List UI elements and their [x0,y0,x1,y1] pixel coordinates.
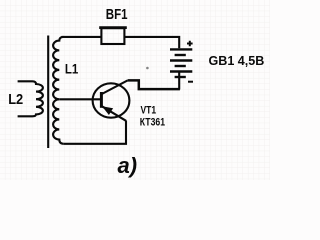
wire: emitter down to bottom rail [64,121,126,144]
battery negative plate 1 [175,54,186,56]
svg-text:а): а) [118,153,138,178]
battery GB1 positive plate 1 [170,48,192,50]
plus sign [187,41,193,47]
BF1 top plate (thick bar) [99,26,127,29]
battery positive plate 2 [170,59,192,61]
inductor L1 (tapped primary winding) [53,37,64,144]
inductor L2 (secondary winding) [18,81,43,116]
battery negative stub [178,72,180,90]
battery negative plate 2 [175,65,186,67]
scan speck [146,67,149,70]
emitter arrow (PNP points toward base) [102,106,113,115]
emitter line [102,106,126,121]
svg-text:КТ361: КТ361 [140,116,165,128]
wire: L1 top to BF1 [62,36,102,38]
transistor VT1 body circle [93,83,130,117]
svg-text:L2: L2 [8,92,23,108]
transformer core [47,36,49,149]
wire: battery minus to collector [128,80,180,89]
svg-text:L1: L1 [65,61,79,77]
wire: BF1 to battery plus terminal [124,37,179,48]
minus sign [188,81,193,83]
svg-text:VT1: VT1 [141,104,157,116]
battery negative plate 3 [175,76,186,78]
svg-text:BF1: BF1 [106,7,128,23]
sound emitter BF1 (box) [101,28,124,44]
transistor base bar [100,92,103,108]
battery positive plate 3 [170,70,192,72]
collector line [102,80,128,94]
svg-text:GB1 4,5В: GB1 4,5В [209,54,265,68]
wire: winding tap to base [59,98,100,100]
